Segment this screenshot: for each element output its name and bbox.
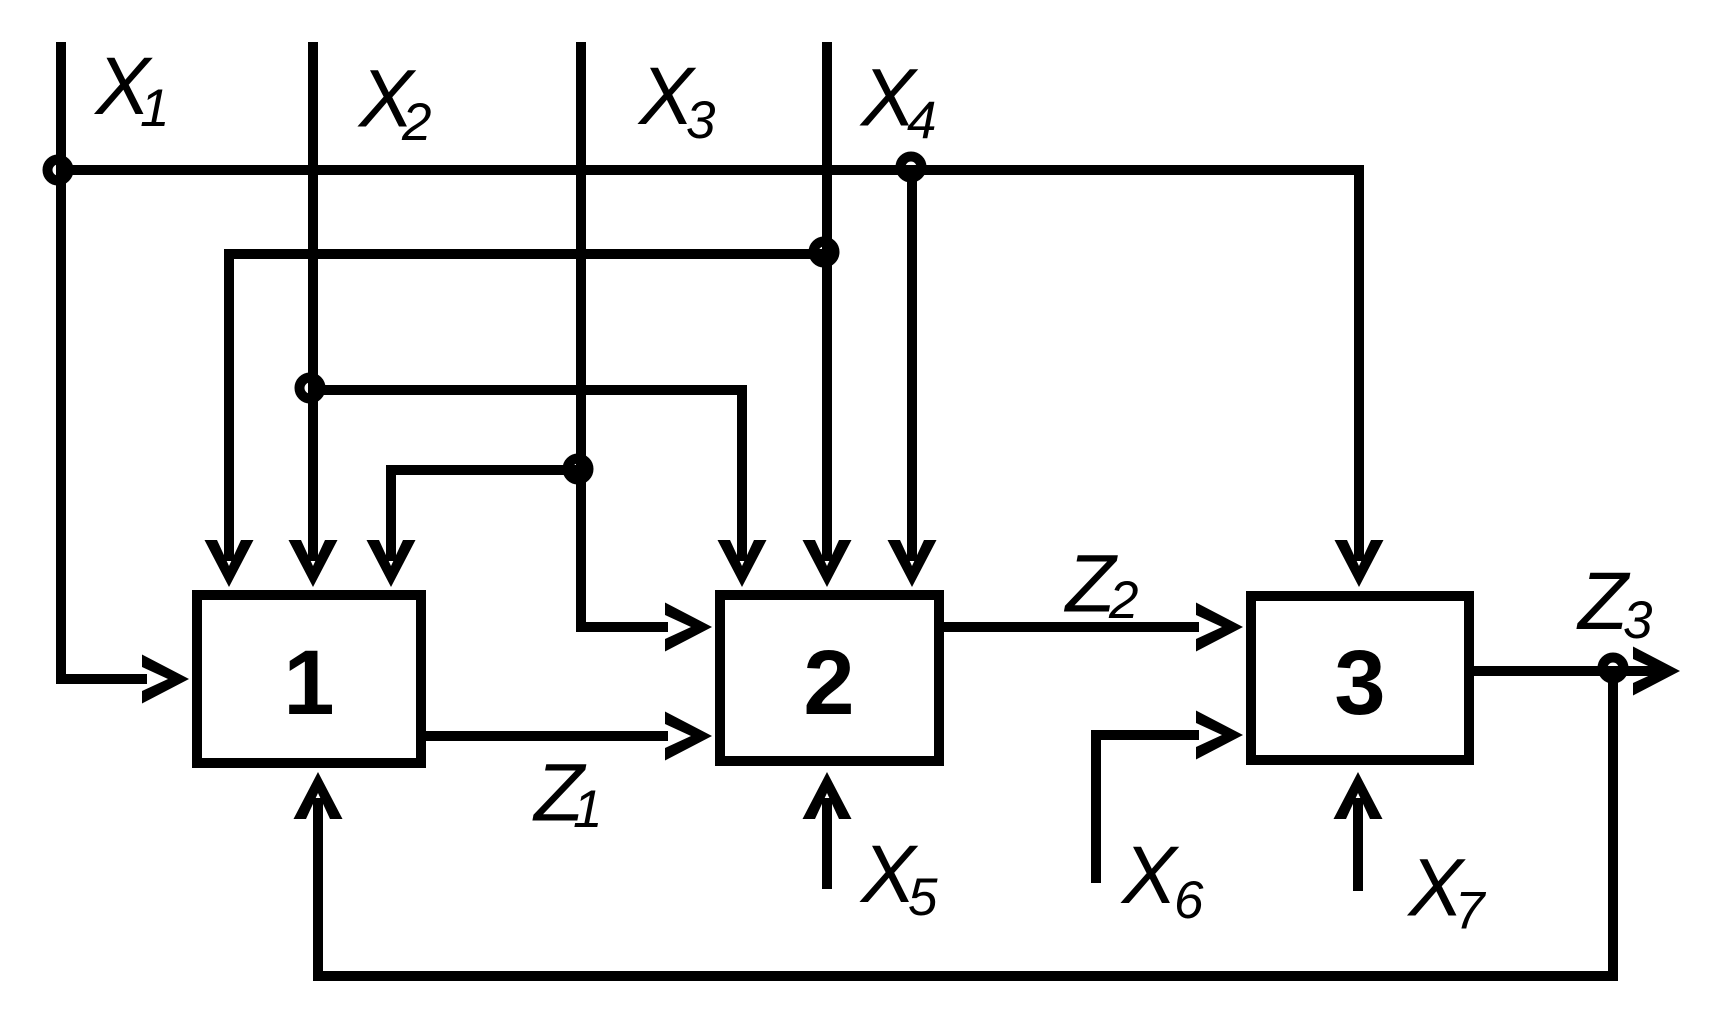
wire X3 branch: horizontal left, drop into block 1 top — [391, 470, 581, 561]
arrowhead into block 1 left (X1) — [142, 655, 189, 704]
wire X3 input: vertical, corner, into block 2 left — [581, 42, 668, 627]
node dot on X1 at top bus — [48, 160, 69, 181]
svg-text:2: 2 — [1108, 571, 1138, 630]
arrowhead into block 3 bottom (X7) — [1334, 772, 1383, 819]
wire Z2: block 2 output to block 3 left — [944, 622, 1199, 632]
svg-text:1: 1 — [283, 632, 334, 734]
arrowhead into block 2 top (X1 branch) — [888, 540, 937, 587]
arrowhead into block 1 top (X2) — [289, 540, 338, 587]
wire X1 branch bus: horizontal to far right, drop into block 3 top — [61, 170, 1359, 561]
wire X4 branch: horizontal left, drop into block 1 top — [229, 254, 827, 561]
svg-text:2: 2 — [401, 93, 431, 152]
wire X1 input: vertical drop, corner, into block 1 left — [61, 42, 147, 679]
label X4 — [859, 53, 936, 151]
svg-text:1: 1 — [140, 79, 169, 138]
label X1 — [94, 41, 170, 138]
arrowhead into block 1 top (X4 branch) — [205, 540, 254, 587]
wire Z3: block 3 output to the right — [1474, 666, 1660, 676]
svg-text:3: 3 — [686, 91, 716, 150]
arrowhead into block 1 bottom (feedback) — [294, 772, 343, 819]
arrowhead into block 2 top (X2 branch) — [718, 540, 767, 587]
block 3 — [1251, 596, 1469, 760]
arrowhead into block 3 top (X1 branch) — [1335, 540, 1384, 587]
arrowhead into block 2 left (X3) — [665, 603, 712, 652]
svg-text:X: X — [1120, 830, 1180, 921]
arrowhead Z3 output — [1633, 647, 1680, 696]
arrowhead into block 3 left (Z2) — [1196, 603, 1243, 652]
wire X5 input: vertical up into block 2 bottom — [822, 798, 832, 889]
wire Z1: block 1 output to block 2 left — [426, 731, 668, 741]
label X5 — [859, 829, 938, 927]
label X6 — [1120, 830, 1204, 930]
arrowhead into block 2 top (X4) — [803, 540, 852, 587]
node dot on Z3 feedback takeoff — [1603, 658, 1624, 679]
wire X2 input: vertical down to block 1 top — [308, 42, 318, 561]
label Z3 — [1576, 556, 1653, 650]
svg-text:3: 3 — [1623, 591, 1653, 650]
wire X2 branch: horizontal right, drop into block 2 top — [313, 390, 742, 561]
svg-text:2: 2 — [803, 632, 854, 734]
label X3 — [637, 51, 716, 150]
svg-text:4: 4 — [907, 92, 936, 151]
node dot on X2 branch — [300, 378, 321, 399]
label X2 — [357, 54, 431, 153]
wire X7 input: vertical up into block 3 bottom — [1353, 798, 1363, 891]
arrowhead into block 2 left (Z1) — [665, 712, 712, 761]
arrowhead into block 3 left (X6) — [1196, 711, 1243, 760]
node dot on X3 branch — [568, 459, 589, 480]
block 1 — [197, 595, 421, 763]
wire X4 input: vertical down to block 2 top — [822, 42, 832, 561]
svg-text:3: 3 — [1334, 632, 1385, 734]
svg-text:6: 6 — [1174, 871, 1204, 930]
wire X1 branch drop to block 2 top — [907, 170, 917, 561]
block 2 — [720, 595, 939, 761]
svg-text:5: 5 — [908, 868, 938, 927]
label Z2 — [1064, 539, 1139, 631]
svg-text:1: 1 — [573, 780, 602, 839]
label X7 — [1407, 843, 1488, 941]
wire Z3 feedback: down, across bottom, up into block 1 bottom — [318, 671, 1613, 976]
wire X6 input: vertical up, corner, into block 3 left — [1096, 735, 1199, 883]
svg-text:7: 7 — [1455, 882, 1487, 941]
node dot on top bus branch to block 2 — [901, 157, 922, 178]
label Z1 — [532, 748, 602, 840]
arrowhead into block 1 top (X3 branch) — [367, 540, 416, 587]
node dot on X4 branch — [814, 242, 835, 263]
arrowhead into block 2 bottom (X5) — [803, 772, 852, 819]
